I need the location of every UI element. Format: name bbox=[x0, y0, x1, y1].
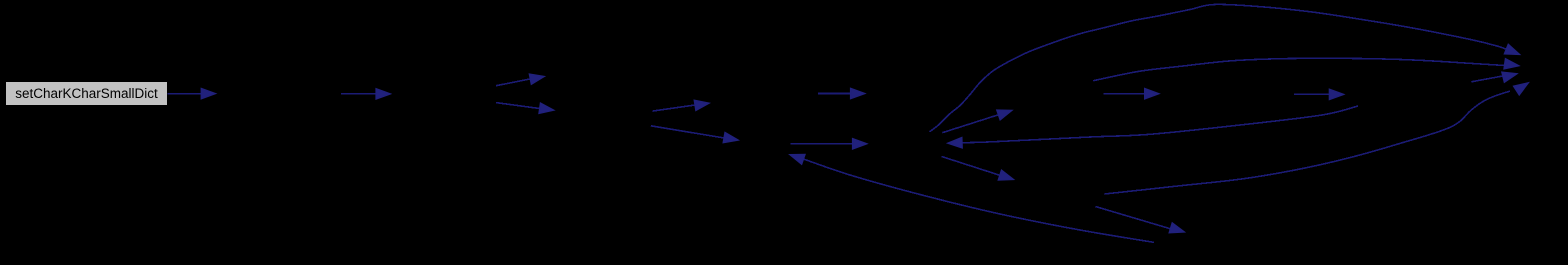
wire edge7 node6 to node8 bbox=[818, 93, 852, 95]
arrowhead edge5 bbox=[694, 98, 710, 111]
arrowhead edge14 bbox=[1329, 89, 1344, 100]
arrowhead edge8 bbox=[853, 139, 868, 150]
wire edge17 nodeV to far right bbox=[1105, 91, 1511, 194]
wire edgeP back edge nodeR to hub bbox=[960, 106, 1358, 143]
wire edge16 short to far right bbox=[1471, 76, 1505, 82]
arrowhead edge10 bbox=[1504, 44, 1521, 59]
arrowhead edge7 bbox=[851, 88, 866, 99]
wire edge4 node3 to node5 bbox=[496, 103, 541, 109]
arrowhead edge6 bbox=[723, 132, 739, 145]
arrowhead edge9 bbox=[788, 150, 805, 165]
wire edge14 nodeS to nodeR bbox=[1294, 93, 1331, 95]
wire edge9 back edge Z to node7 bbox=[802, 159, 1154, 243]
wire edge1 box to node2 bbox=[168, 93, 204, 95]
arrowhead edge13 bbox=[1145, 88, 1160, 99]
arrowhead edge4 bbox=[539, 103, 555, 116]
arrowhead edge3 bbox=[529, 71, 545, 84]
arrowhead edge16 bbox=[1502, 69, 1519, 83]
wire edge15 nodeY top to far right bbox=[1093, 58, 1505, 80]
wire edge2 node2 to node3 bbox=[341, 93, 377, 95]
arrowhead edge15 bbox=[1504, 59, 1520, 72]
arrowhead edge18 bbox=[1169, 223, 1186, 237]
wire edge3 node3 to node4 bbox=[496, 79, 531, 86]
arrowhead edge2 bbox=[376, 89, 391, 100]
arrowhead edge1 bbox=[201, 88, 216, 99]
wire edge5 node5 to node6 bbox=[653, 105, 698, 111]
arrowhead edge17 bbox=[1513, 78, 1531, 95]
wire edge11 hub to nodeY bbox=[942, 114, 1001, 133]
wire edge12 hub to nodeV bbox=[942, 157, 1002, 177]
wire edge13 nodeY to nodeS bbox=[1103, 93, 1146, 95]
wire edge18 nodeV to nodeZ bbox=[1095, 207, 1173, 230]
wire edge6 node5 to node7 bbox=[651, 126, 726, 139]
arrowhead edge11 bbox=[997, 105, 1014, 120]
wire edge8 node7 to hub bbox=[791, 143, 855, 145]
node box setCharKCharSmallDict bbox=[6, 82, 167, 105]
arrowhead edgeP bbox=[947, 137, 962, 148]
arrowhead edge12 bbox=[998, 170, 1015, 185]
wire edge10 big sweep hub to far right bbox=[930, 4, 1509, 131]
